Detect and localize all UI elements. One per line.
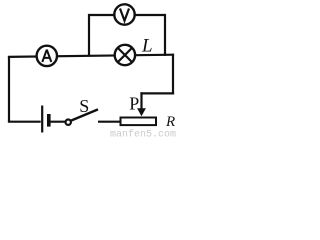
svg-text:manfen5.com: manfen5.com <box>110 128 176 137</box>
ammeter A <box>37 46 57 66</box>
svg-text:L: L <box>141 35 153 56</box>
voltmeter V <box>114 4 134 24</box>
svg-text:S: S <box>79 96 89 116</box>
rheostat wiper P arrowhead <box>137 108 146 116</box>
wire: top horizontal through voltmeter <box>89 14 165 16</box>
switch S blade <box>70 109 98 121</box>
wire: wiper P vertical <box>140 92 142 110</box>
wire: voltmeter branch left vertical <box>88 14 90 57</box>
rheostat R body <box>121 118 157 126</box>
wire: right outer vertical <box>172 54 174 95</box>
ammeter letter A <box>42 50 51 62</box>
wire: middle horizontal through ammeter and lamp <box>8 55 174 57</box>
wire: battery to switch <box>49 121 65 123</box>
switch S pivot contact <box>66 120 71 125</box>
battery positive plate <box>41 106 43 133</box>
wire: left vertical side <box>8 56 10 122</box>
svg-text:R: R <box>165 114 175 130</box>
lamp L <box>115 45 135 65</box>
wire: bottom left segment <box>8 121 41 123</box>
wire: horizontal to wiper <box>140 92 174 94</box>
svg-text:P: P <box>129 94 139 114</box>
voltmeter letter V <box>120 9 129 21</box>
wire: switch to rheostat <box>98 121 121 123</box>
wire: voltmeter branch right vertical <box>164 14 166 56</box>
lamp cross <box>118 48 132 62</box>
battery negative plate <box>47 114 51 127</box>
